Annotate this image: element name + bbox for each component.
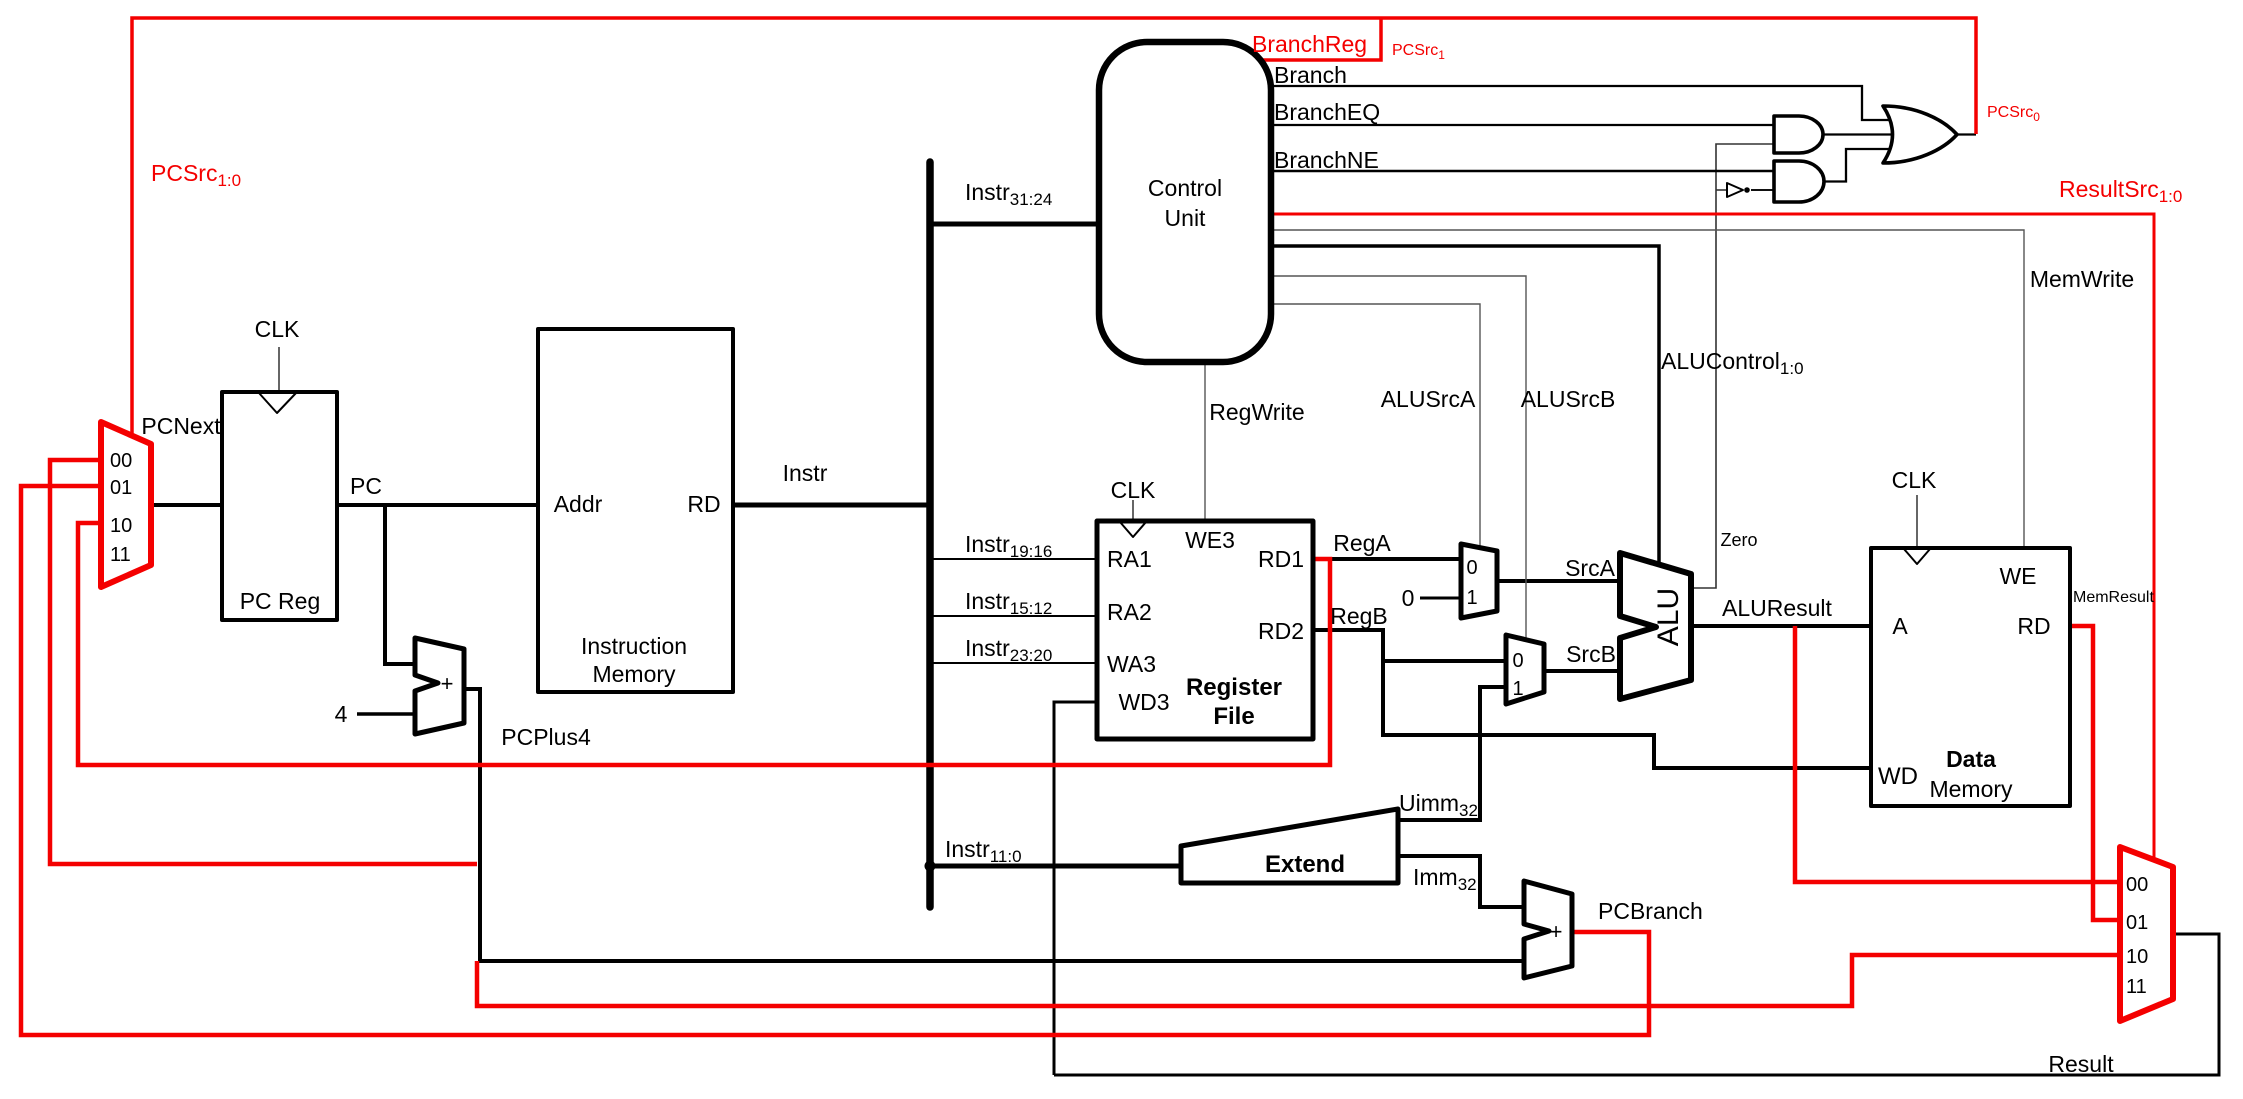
svg-text:WE3: WE3 xyxy=(1185,527,1235,553)
svg-text:MemResult: MemResult xyxy=(2073,589,2154,606)
svg-text:1: 1 xyxy=(1466,587,1477,609)
svg-text:CLK: CLK xyxy=(255,316,300,342)
svg-text:PC Reg: PC Reg xyxy=(240,588,321,614)
svg-text:RA2: RA2 xyxy=(1107,599,1152,625)
svg-text:RD2: RD2 xyxy=(1258,618,1304,644)
svg-text:11: 11 xyxy=(110,544,131,566)
svg-text:WD: WD xyxy=(1878,763,1918,790)
svg-text:BranchNE: BranchNE xyxy=(1274,147,1379,173)
svg-text:RegWrite: RegWrite xyxy=(1209,399,1304,425)
svg-text:A: A xyxy=(1892,613,1908,639)
svg-text:Register: Register xyxy=(1186,674,1282,701)
svg-text:0: 0 xyxy=(1512,650,1523,672)
svg-text:BranchReg: BranchReg xyxy=(1252,31,1367,57)
svg-text:PCBranch: PCBranch xyxy=(1598,898,1703,924)
svg-text:01: 01 xyxy=(110,477,132,499)
svg-text:ALUSrcB: ALUSrcB xyxy=(1521,386,1616,412)
svg-text:Unit: Unit xyxy=(1165,205,1207,231)
svg-text:WE: WE xyxy=(1999,563,2036,589)
svg-text:Memory: Memory xyxy=(592,661,676,687)
svg-text:Zero: Zero xyxy=(1720,530,1757,550)
svg-text:PCNext: PCNext xyxy=(141,413,221,439)
svg-text:MemWrite: MemWrite xyxy=(2030,266,2134,292)
svg-text:+: + xyxy=(1550,919,1563,944)
svg-text:WD3: WD3 xyxy=(1118,689,1169,715)
svg-text:Control: Control xyxy=(1148,175,1222,201)
svg-text:1: 1 xyxy=(1512,678,1523,700)
svg-text:PCPlus4: PCPlus4 xyxy=(501,724,591,750)
svg-text:Instruction: Instruction xyxy=(581,633,687,659)
svg-text:RA1: RA1 xyxy=(1107,546,1152,572)
svg-text:File: File xyxy=(1213,703,1254,730)
svg-text:4: 4 xyxy=(335,701,348,727)
svg-text:RD: RD xyxy=(2017,613,2050,639)
svg-text:CLK: CLK xyxy=(1892,467,1937,493)
svg-text:Result: Result xyxy=(2048,1051,2114,1077)
svg-text:SrcB: SrcB xyxy=(1566,641,1616,667)
svg-text:Instr: Instr xyxy=(783,460,828,486)
svg-text:Branch: Branch xyxy=(1274,62,1347,88)
svg-text:WA3: WA3 xyxy=(1107,651,1156,677)
svg-text:Data: Data xyxy=(1946,746,1996,772)
svg-text:BranchEQ: BranchEQ xyxy=(1274,99,1380,125)
svg-text:RegA: RegA xyxy=(1333,530,1391,556)
svg-text:Memory: Memory xyxy=(1929,776,2013,802)
svg-text:ALUSrcA: ALUSrcA xyxy=(1381,386,1476,412)
svg-text:Extend: Extend xyxy=(1265,851,1345,878)
svg-text:00: 00 xyxy=(110,450,132,472)
svg-text:11: 11 xyxy=(2126,976,2147,998)
svg-text:SrcA: SrcA xyxy=(1565,555,1616,581)
svg-text:PC: PC xyxy=(350,473,382,499)
svg-text:0: 0 xyxy=(1402,585,1415,611)
svg-text:CLK: CLK xyxy=(1111,477,1156,503)
svg-text:RD1: RD1 xyxy=(1258,546,1304,572)
svg-text:00: 00 xyxy=(2126,874,2148,896)
svg-text:10: 10 xyxy=(110,515,132,537)
svg-text:+: + xyxy=(441,671,454,696)
svg-text:ALU: ALU xyxy=(1652,588,1685,646)
svg-text:RD: RD xyxy=(687,491,720,517)
svg-text:Addr: Addr xyxy=(554,491,603,517)
svg-text:01: 01 xyxy=(2126,912,2148,934)
svg-text:RegB: RegB xyxy=(1330,603,1388,629)
svg-text:10: 10 xyxy=(2126,946,2148,968)
svg-text:ALUResult: ALUResult xyxy=(1722,595,1833,621)
svg-text:0: 0 xyxy=(1466,557,1477,579)
